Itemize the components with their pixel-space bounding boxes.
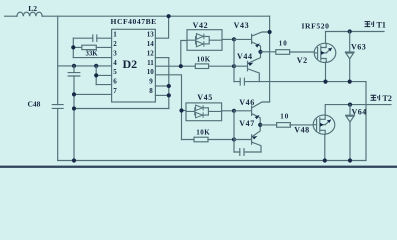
label to T2 [371, 94, 392, 103]
wire: V48 drain to T2 line [325, 105, 391, 116]
capacitor pin1 (osc C) [93, 35, 97, 41]
resistor 33K [73, 46, 111, 48]
wire: lower cap line [234, 151, 261, 153]
svg-text:13: 13 [147, 31, 155, 39]
svg-text:IRF520: IRF520 [302, 22, 330, 31]
svg-text:V47: V47 [239, 119, 255, 128]
wire: pin5 row [96, 74, 111, 76]
svg-text:T1: T1 [377, 21, 386, 30]
zener pair box V42 [187, 30, 222, 51]
wire: pin8 row [155, 94, 168, 96]
svg-text:33K: 33K [86, 51, 99, 58]
wire: pin13 row to +V rail [155, 16, 168, 38]
svg-text:10K: 10K [196, 129, 210, 137]
wire: T1 output line [326, 31, 385, 33]
wire: base node vertical lower [233, 111, 235, 152]
svg-text:14: 14 [147, 40, 155, 48]
svg-text:10: 10 [279, 40, 288, 48]
wire: pin1 row with capacitor to osc network [73, 37, 111, 39]
wire: pin11 drive row [155, 65, 234, 67]
wire: ground vertical x74 [73, 66, 75, 161]
wire: gate drive lower with resistor 10 [260, 124, 313, 126]
svg-text:V42: V42 [193, 21, 209, 30]
svg-text:V2: V2 [297, 56, 308, 65]
svg-text:5: 5 [113, 68, 117, 76]
wire: right riser from rail up to source line [365, 82, 367, 161]
svg-text:7: 7 [113, 87, 117, 95]
wire: V45 left [182, 110, 187, 112]
svg-text:11: 11 [147, 59, 154, 67]
svg-text:C48: C48 [28, 99, 41, 108]
capacitor C48 [52, 105, 63, 109]
wire: C48 to bottom rail [57, 108, 59, 160]
mosfet V2 [314, 43, 336, 62]
capacitor lower driver [240, 149, 244, 156]
wire: V42 left to node [181, 41, 187, 67]
zener pair box V45 [186, 103, 222, 121]
emitter node lower [258, 123, 262, 127]
wire: pin3 row [73, 57, 111, 59]
svg-text:6: 6 [113, 78, 117, 86]
wire: gate drive upper with resistor 10 [261, 51, 315, 53]
wire: top rail from L2 to +V corner [42, 15, 269, 17]
inductor L2 [17, 12, 42, 16]
svg-text:V43: V43 [234, 21, 250, 30]
wire: source return line [234, 81, 366, 83]
svg-text:10: 10 [280, 113, 289, 121]
svg-text:V46: V46 [239, 98, 255, 107]
resistor 10K upper [195, 64, 208, 69]
wire: pin12 row [155, 57, 168, 59]
wire: pin4 row from +V branch [58, 65, 112, 67]
svg-text:3: 3 [113, 50, 117, 58]
ground rail junction [72, 158, 76, 162]
label to T1 [365, 21, 386, 30]
wire: V42 right to base node [222, 38, 234, 40]
svg-text:10: 10 [147, 68, 155, 76]
wire: gnd link riser to pin12 [168, 58, 170, 109]
svg-text:V45: V45 [197, 93, 213, 102]
diodes inside V45 [186, 108, 222, 115]
svg-text:D2: D2 [123, 57, 138, 71]
wire: +V vertical down to V46 collector [269, 16, 271, 101]
wire: top +V rail from left edge to inductor [5, 15, 18, 17]
svg-text:4: 4 [113, 59, 117, 67]
wire: V2 source down [325, 62, 327, 81]
wire: base node vertical upper [233, 39, 235, 81]
wire: osc left vertical pin1-pin3 [72, 38, 74, 57]
svg-text:V63: V63 [351, 42, 366, 51]
capacitor VDD bypass on ground vertical [68, 73, 80, 76]
bottom image border [0, 166, 397, 168]
resistor 10K lower [182, 139, 235, 141]
mosfet V48 [313, 115, 335, 134]
svg-text:2: 2 [113, 40, 117, 48]
svg-text:T2: T2 [383, 94, 392, 103]
node pin2 junction [71, 45, 75, 49]
wire: bottom ground rail [58, 160, 366, 162]
svg-text:9: 9 [149, 78, 153, 86]
wire: lower gnd link [74, 108, 169, 110]
ic HCF4047BE box D2 [112, 29, 156, 102]
svg-text:1: 1 [113, 31, 117, 39]
capacitor on source return [240, 78, 244, 85]
svg-text:HCF4047BE: HCF4047BE [111, 17, 157, 26]
svg-text:V44: V44 [237, 52, 253, 61]
svg-text:V48: V48 [294, 126, 309, 135]
emitter node upper [258, 50, 262, 54]
wire: V45 right to base node [222, 110, 234, 112]
svg-text:12: 12 [147, 50, 155, 58]
wire: pins 4-5-6 tie vertical [95, 66, 97, 85]
wire: pin9 row [155, 85, 168, 87]
svg-text:8: 8 [149, 87, 153, 95]
wire: C48 branch vertical upper [57, 16, 59, 104]
wire: V2 drain up [325, 32, 327, 44]
svg-text:10K: 10K [197, 55, 211, 63]
wire: V48 source down to rail [324, 134, 326, 160]
svg-text:L2: L2 [28, 4, 37, 13]
wire: pin6 row [96, 84, 111, 86]
wire: pin10 drive down to lower driver [155, 75, 181, 140]
wire: pin7 row [74, 93, 112, 95]
diodes inside V42 [187, 36, 222, 44]
